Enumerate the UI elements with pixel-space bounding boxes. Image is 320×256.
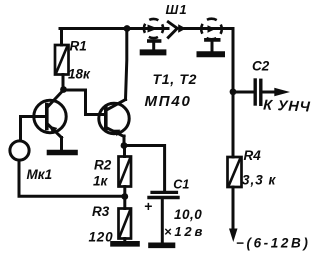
connector Ш1 right shell chassis bar (200, 51, 223, 57)
transistor T2 collector (107, 100, 126, 111)
connector Ш1 left pin arrow (148, 25, 159, 33)
node at rail junction dot (124, 25, 131, 32)
wire C2 to output arrow (263, 91, 279, 94)
svg-text:С2: С2 (252, 59, 270, 74)
microphone Мк1 circle (10, 141, 29, 160)
transistor T1 base bar (45, 105, 49, 129)
connector Ш1 right pin arrow (208, 25, 216, 33)
connector Ш1 right shell stem (211, 42, 214, 52)
wire top rail left segment (60, 27, 168, 30)
resistor R4 diagonal (229, 160, 240, 185)
wire C1 bottom (161, 199, 164, 243)
transistor T1 collector (47, 91, 63, 108)
chassis bar below R3 (113, 241, 137, 247)
wire R2 bottom to node B (123, 187, 126, 197)
svg-text:МП40: МП40 (145, 93, 192, 110)
resistor R1 box (55, 45, 69, 75)
svg-text:Т1, Т2: Т1, Т2 (153, 71, 198, 87)
resistor R1 diagonal (57, 47, 68, 72)
connector Ш1 detachable arrow (solid) (178, 24, 186, 33)
svg-text:10,0: 10,0 (174, 207, 202, 222)
svg-text:R3: R3 (92, 204, 110, 219)
wire T2 collector up to rail (126, 29, 127, 100)
resistor R4 box (228, 157, 242, 187)
wire top rail right segment (185, 27, 233, 30)
svg-text:К УНЧ: К УНЧ (263, 98, 311, 116)
svg-text:R1: R1 (70, 39, 87, 54)
resistor R3 diagonal (120, 211, 130, 236)
output arrow to К УНЧ (274, 88, 290, 97)
wire right vertical rail (232, 29, 235, 158)
wire Мк1 bottom to node B (19, 161, 125, 197)
resistor R2 stem top (123, 146, 126, 157)
node D junction dot (230, 88, 237, 95)
resistor R3 box (119, 209, 132, 239)
node C junction dot (121, 142, 128, 149)
wire R3 bottom (123, 239, 126, 243)
transistor T2 emitter arrow (112, 130, 120, 137)
connector Ш1 left shell cap (149, 39, 160, 43)
wire left drop from rail to R1 (60, 29, 63, 46)
chassis bar below C1 (151, 243, 173, 249)
wire node A to T2 base (64, 90, 104, 115)
svg-text:С1: С1 (173, 178, 189, 192)
transistor T2 circle (99, 103, 129, 133)
chassis bar at T1 emitter (50, 150, 76, 156)
svg-text:18к: 18к (68, 67, 91, 82)
connector Ш1 left circle (144, 19, 163, 38)
wire R1 bottom to node A (62, 75, 65, 90)
svg-text:R2: R2 (94, 158, 112, 173)
svg-text:×12в: ×12в (164, 224, 205, 239)
capacitor C2 left plate (253, 80, 256, 104)
transistor T1 emitter arrow (49, 126, 57, 134)
supply arrow down (229, 229, 238, 243)
transistor T1 emitter (48, 124, 62, 138)
connector Ш1 left shell stem (152, 42, 155, 50)
svg-text:R4: R4 (244, 148, 262, 163)
transistor T2 base bar (104, 108, 108, 130)
wire node C to C1 (124, 146, 165, 192)
svg-text:1к: 1к (93, 174, 109, 189)
connector Ш1 right circle (201, 19, 222, 40)
transistor T2 emitter (106, 128, 124, 137)
svg-text:Мк1: Мк1 (27, 167, 53, 182)
svg-text:−(6-12В): −(6-12В) (236, 236, 310, 251)
node B junction dot (121, 193, 128, 200)
wire node D to C2 (233, 91, 253, 94)
svg-text:3,3 к: 3,3 к (242, 173, 277, 188)
capacitor C2 right plate (259, 80, 262, 104)
wire T2 emitter to node C (123, 136, 126, 146)
resistor R2 box (119, 157, 132, 187)
wire T1 emitter down (60, 138, 63, 151)
transistor T1 circle (34, 100, 66, 132)
capacitor C1 bottom plate (149, 196, 178, 199)
wire R4 bottom to supply (232, 187, 235, 230)
connector Ш1 right shell cap (206, 38, 219, 42)
svg-text:120: 120 (89, 230, 114, 245)
node A junction dot (60, 86, 67, 93)
resistor R2 diagonal (120, 159, 130, 184)
capacitor C1 top plate (152, 191, 177, 194)
connector Ш1 left shell chassis bar (143, 49, 164, 55)
svg-text:+: + (144, 198, 152, 214)
resistor R3 stem top (123, 197, 126, 209)
wire T1 base lead (21, 117, 45, 140)
svg-text:Ш1: Ш1 (166, 2, 188, 17)
connector Ш1 detachable chevron (open) (168, 22, 177, 38)
